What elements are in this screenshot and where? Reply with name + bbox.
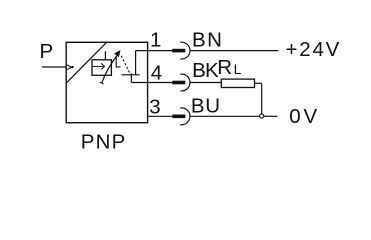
adjustment arrow filled head (115, 51, 120, 57)
load resistor RL (221, 79, 254, 87)
wire pin3 to plug (148, 115, 173, 117)
svg-text:P: P (40, 40, 54, 63)
plug pin 1 (thick bar) (172, 49, 185, 53)
plug pin 4 (thick bar) (172, 81, 185, 85)
wire BU to junction (189, 115, 259, 117)
svg-text:+24V: +24V (286, 38, 342, 61)
plunger tick above small rect (104, 51, 106, 60)
common drop vertical to pin 4 (130, 73, 132, 82)
switch contact bar (122, 74, 140, 76)
svg-text:1: 1 (150, 29, 161, 52)
socket arc pin 1 (180, 42, 190, 59)
wire pin4 to plug (131, 82, 172, 84)
svg-text:0V: 0V (289, 105, 320, 128)
wire resistor to corner (255, 82, 262, 84)
wire BN to +24V (189, 50, 278, 52)
svg-text:R: R (217, 56, 232, 79)
wire BK to resistor (189, 82, 221, 84)
NO contact vertical to pin 1 (135, 51, 137, 75)
svg-text:4: 4 (151, 61, 162, 84)
converter element (small rect) (92, 60, 111, 76)
wire junction to 0V (264, 115, 278, 117)
svg-text:BN: BN (192, 29, 223, 52)
diagonal actuation line inside box (67, 43, 106, 83)
plunger link L-shape (116, 57, 120, 67)
open junction node (260, 114, 264, 118)
svg-text:BU: BU (191, 94, 221, 117)
node dot at arrow tip (71, 66, 73, 68)
pressure input arrowhead (67, 65, 72, 70)
plug pin 3 (thick bar) (172, 115, 185, 119)
wire corner down to 0V junction (261, 83, 263, 113)
piston arrow inside small rect (92, 65, 103, 67)
socket arc pin 3 (180, 108, 190, 125)
svg-text:L: L (234, 61, 242, 77)
adjustment arrow tail crossbar (100, 82, 104, 84)
wire P input (42, 66, 66, 68)
svg-text:BK: BK (192, 59, 219, 82)
svg-text:3: 3 (149, 95, 160, 118)
dashed mechanical link (121, 56, 130, 74)
adjustment arrow shaft (102, 55, 117, 83)
svg-text:PNP: PNP (81, 131, 127, 154)
wire pin1 to plug (136, 50, 173, 52)
sensor body box U1 (66, 42, 147, 122)
socket arc pin 4 (180, 74, 190, 91)
